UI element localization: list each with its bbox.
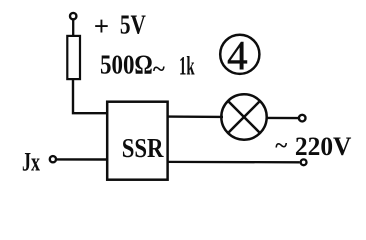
wire	[57, 158, 108, 161]
resistor R (500 ohm ~ 1k)	[67, 36, 80, 79]
terminal +5V	[70, 13, 76, 19]
svg-text:500Ω: 500Ω	[100, 49, 153, 80]
wire	[266, 117, 299, 120]
lamp cross	[229, 102, 259, 132]
svg-text:+: +	[94, 11, 109, 41]
terminal 220V	[301, 159, 307, 165]
svg-text:1k: 1k	[179, 52, 195, 81]
svg-text:~: ~	[153, 57, 165, 82]
svg-text:~: ~	[275, 133, 287, 158]
svg-text:Jx: Jx	[22, 147, 40, 176]
lamp HL	[221, 94, 266, 139]
svg-text:4: 4	[227, 32, 248, 78]
wire	[72, 20, 74, 36]
terminal Jx	[50, 156, 56, 162]
svg-text:5V: 5V	[120, 10, 146, 40]
circled number 4	[220, 35, 259, 74]
terminal lamp out	[299, 115, 306, 122]
wire	[167, 115, 223, 118]
SSR box U1	[107, 102, 167, 180]
svg-text:220V: 220V	[295, 132, 352, 161]
wire	[73, 79, 108, 113]
svg-text:SSR: SSR	[122, 133, 164, 163]
wire	[167, 161, 300, 164]
